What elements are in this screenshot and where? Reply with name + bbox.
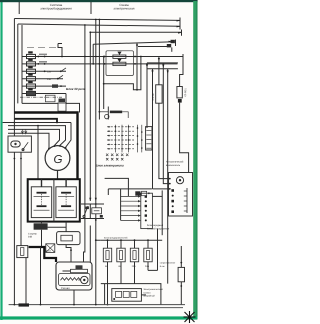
relay K3: [27, 69, 36, 73]
wire to battery left: [37, 126, 39, 180]
starter label: [28, 232, 37, 238]
generator G1: [45, 146, 70, 171]
bus B2: [18, 24, 180, 26]
vertical V99: [98, 20, 100, 120]
header label right: [114, 3, 135, 11]
grid x-marks rows: [106, 154, 128, 161]
right verticals v137: [136, 43, 138, 90]
terminal box on T1: [58, 103, 66, 111]
fuse box FU1: [8, 136, 31, 152]
R4 label: [160, 262, 176, 268]
feed drop to ground: [40, 247, 42, 305]
fuse F4: [144, 248, 152, 262]
corner star bottom-right: [184, 311, 196, 323]
block contact column: [186, 188, 188, 213]
valve component: [112, 289, 142, 302]
valve label: [143, 288, 163, 297]
vertical V103: [103, 57, 105, 110]
wires below fuse box: [13, 119, 15, 305]
regulator grid block: [107, 125, 142, 153]
svg-text:ПЭ-75: ПЭ-75: [152, 93, 155, 101]
right vertical v152: [153, 69, 169, 189]
relay row 6 wire: [22, 93, 66, 95]
thick wire T2: [14, 119, 57, 123]
svg-text:Блок предохранителей: Блок предохранителей: [104, 236, 128, 239]
right quartet wire q1: [158, 57, 160, 85]
battery cell 2: [56, 187, 76, 218]
contact KV2: [113, 62, 126, 65]
resistor R1: [156, 85, 162, 103]
bus B4: [93, 42, 174, 44]
horn box outer: [56, 262, 92, 290]
horn zigzag: [61, 278, 81, 281]
relay K6: [27, 91, 36, 95]
svg-text:батарей напряжение: батарей напряжение: [147, 228, 170, 231]
svg-text:клапан: клапан: [143, 291, 151, 294]
starter box: [57, 232, 80, 245]
right block label: [166, 161, 184, 167]
svg-text:Блок 30 реле: Блок 30 реле: [66, 87, 86, 91]
battery enclosure GB: [28, 179, 80, 221]
generator feed wire a: [66, 123, 72, 148]
fuse box FU2: [17, 246, 28, 258]
left border wire VL1: [13, 19, 15, 119]
frame right green band: [193, 1, 197, 319]
svg-text:электрооборудования: электрооборудования: [40, 6, 72, 10]
contact comp on W2: [135, 191, 140, 195]
fuse F3: [130, 248, 138, 262]
relay row 1 wire: [22, 56, 183, 58]
svg-text:электрическая: электрическая: [114, 6, 135, 10]
strip right wire: [152, 195, 162, 197]
horn bottom stub: [73, 290, 75, 305]
svg-text:Электромагнитный: Электромагнитный: [143, 288, 163, 291]
bottom enclosure: [101, 284, 161, 305]
svg-text:Блок электроники: Блок электроники: [96, 163, 124, 167]
frame left green stripe: [0, 0, 2, 320]
header tick 1: [18, 2, 20, 14]
relay row 2 wire: [22, 63, 178, 65]
shunt on V97: [92, 208, 102, 214]
relay bracket wire: [21, 25, 23, 103]
bus B5 left drop: [92, 44, 94, 64]
strip arrows: [121, 196, 138, 220]
ground bus 2: [50, 307, 183, 309]
frame bottom green band: [0, 316, 197, 319]
wire W1: [105, 178, 129, 196]
generator feed wire b: [8, 126, 66, 146]
fuse F2: [117, 248, 125, 262]
dash-dot boundary: [20, 96, 62, 98]
svg-text:выключатель: выключатель: [166, 164, 181, 167]
contact rail top: [81, 203, 104, 205]
svg-text:G: G: [54, 154, 63, 166]
svg-text:ПЭВ-10: ПЭВ-10: [184, 88, 187, 97]
left inner border wire VL2: [17, 24, 19, 103]
contact rail bottom: [81, 218, 104, 220]
svg-text:8 ом: 8 ом: [160, 265, 165, 268]
fuse drops: [107, 262, 109, 305]
svg-text:16а: 16а: [145, 265, 150, 268]
battery cell stubs: [42, 179, 67, 187]
frame top teal line: [0, 0, 198, 2]
ground bus 1: [9, 304, 185, 306]
relay column labels: [27, 47, 56, 49]
relay row 5 wire: [22, 85, 66, 87]
fuse box arrows: [21, 129, 23, 133]
resistor R4: [178, 267, 184, 281]
contact pair bracket: [106, 51, 133, 76]
relay K1: [27, 54, 36, 58]
fuse F1: [103, 248, 111, 262]
generator feed wire d: [8, 133, 49, 148]
long vertical V97: [96, 20, 100, 305]
long left wire: [3, 122, 71, 124]
small box on boundary: [45, 95, 55, 102]
middle relay symbol: [107, 107, 109, 120]
bottom bus: [100, 239, 162, 241]
relay K4: [27, 77, 36, 81]
horn relay element: [71, 269, 88, 272]
svg-text:24В: 24В: [28, 236, 33, 239]
svg-text:аварийный: аварийный: [143, 295, 155, 298]
relay row 3 wire: [22, 70, 66, 72]
X box: [46, 244, 55, 253]
right block box: [169, 173, 193, 217]
right block sub label: [147, 224, 170, 230]
svg-text:Автоматический: Автоматический: [166, 161, 184, 164]
switch blade: [84, 206, 88, 216]
wire starter to horn box: [66, 245, 71, 262]
step wire below bracket: [104, 57, 141, 90]
thick feed to horn box: [29, 247, 56, 262]
bus B4 left drop: [58, 44, 62, 57]
bus B1: [14, 19, 180, 21]
header label left: [40, 3, 72, 11]
arrow on V90: [89, 198, 91, 201]
right quartet wire q2: [163, 63, 169, 184]
horn motor circle: [81, 276, 88, 283]
relay K5: [27, 84, 36, 88]
svg-text:Сигнал: Сигнал: [61, 287, 70, 290]
svg-text:Блок зарядный: Блок зарядный: [147, 224, 164, 227]
svg-text:Стартер: Стартер: [28, 232, 37, 235]
long vertical V90: [89, 32, 91, 262]
resistor R2: [180, 57, 183, 87]
step wire right of strip: [148, 229, 158, 271]
relay K2: [27, 62, 36, 66]
header tick 2: [90, 2, 92, 14]
wire row6 drop: [65, 94, 67, 104]
generator feed wire c: [8, 129, 60, 145]
thick wire T1: [14, 113, 77, 180]
svg-text:10а: 10а: [132, 265, 137, 268]
battery mid wire: [53, 179, 55, 221]
ground symbol: [19, 303, 30, 306]
right line y62: [147, 62, 178, 64]
terminal strip box: [141, 193, 153, 228]
long vertical V84: [84, 25, 85, 262]
svg-text:сопротивление: сопротивление: [160, 262, 176, 265]
right vertical v147: [146, 63, 148, 128]
lower row wire: [22, 103, 80, 112]
wire below FU2: [25, 258, 27, 305]
block meter circle: [176, 177, 183, 184]
generator bottom wire: [57, 170, 59, 179]
bus B3: [90, 31, 182, 33]
horn inner box: [59, 274, 91, 286]
battery cell 1: [31, 187, 51, 218]
contact KV1: [113, 55, 126, 58]
wire W2: [108, 189, 152, 195]
grid terminal column: [146, 127, 152, 150]
relay row 4 wire: [22, 78, 63, 80]
arrow on V97: [95, 198, 97, 201]
connector under battery: [34, 223, 48, 229]
bus B5: [138, 46, 169, 48]
right line y68: [147, 68, 178, 70]
wire to starter box: [48, 222, 67, 232]
right quartet wire q3: [167, 69, 169, 284]
